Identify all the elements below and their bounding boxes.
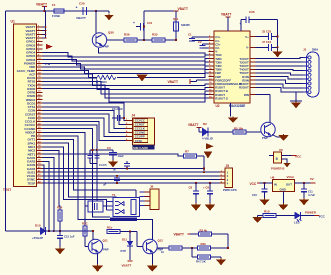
svg-text:C3: C3 — [107, 146, 111, 150]
svg-text:TESP: TESP — [27, 181, 35, 185]
svg-text:OUT: OUT — [286, 183, 292, 187]
svg-text:C10: C10 — [252, 193, 257, 197]
svg-text:CCIO: CCIO — [135, 139, 143, 143]
svg-text:Q31: Q31 — [173, 17, 179, 21]
svg-text:1 W: 1 W — [45, 62, 51, 66]
svg-text:C12 1uF: C12 1uF — [64, 235, 75, 239]
svg-text:VBATT: VBATT — [36, 3, 48, 7]
svg-text:C35: C35 — [249, 10, 255, 14]
svg-text:POWER B: POWER B — [271, 167, 284, 171]
svg-text:4.7uF: 4.7uF — [308, 193, 315, 197]
svg-text:U5: U5 — [279, 148, 283, 152]
svg-text:33 C33: 33 C33 — [262, 29, 271, 33]
svg-text:R3b: R3b — [201, 242, 207, 246]
svg-text:J5: J5 — [226, 164, 230, 168]
svg-text:J1: J1 — [303, 48, 307, 52]
svg-text:SIM CARD: SIM CARD — [133, 146, 149, 150]
svg-text:Q11: Q11 — [103, 239, 109, 243]
svg-text:V+: V+ — [245, 35, 249, 39]
svg-text:MAX3238E: MAX3238E — [229, 104, 245, 108]
svg-text:IN: IN — [274, 183, 277, 187]
svg-text:R1OUT G: R1OUT G — [215, 96, 229, 100]
svg-text:DB9: DB9 — [312, 48, 318, 52]
svg-text:4 VBLID: 4 VBLID — [202, 137, 213, 141]
svg-text:uF: uF — [103, 183, 107, 187]
svg-text:VBATT: VBATT — [122, 264, 132, 268]
svg-text:J4: J4 — [132, 114, 136, 118]
svg-text:C2: C2 — [198, 40, 202, 44]
svg-text:+: + — [133, 21, 135, 25]
svg-text:PNP: PNP — [103, 45, 109, 49]
svg-text:TEST: TEST — [3, 188, 11, 192]
svg-text:VBATT: VBATT — [174, 233, 184, 237]
svg-text:GND: GND — [280, 187, 286, 191]
svg-text:47 C34: 47 C34 — [262, 40, 271, 44]
svg-text:R1C: R1C — [82, 222, 88, 226]
svg-text:C1: C1 — [188, 33, 192, 37]
svg-text:R36: R36 — [124, 33, 130, 37]
svg-text:R10: R10 — [264, 210, 270, 214]
svg-text:U2: U2 — [216, 104, 220, 108]
svg-text:C6 33nF: C6 33nF — [112, 107, 123, 111]
svg-text:VBATT: VBATT — [221, 13, 231, 17]
svg-text:R4 7.5K: R4 7.5K — [196, 260, 206, 264]
svg-text:+: + — [76, 6, 78, 10]
svg-text:F1: F1 — [52, 3, 56, 7]
svg-text:+ C9: + C9 — [203, 186, 209, 190]
svg-text:VBATT: VBATT — [178, 7, 188, 11]
svg-text:10uF: 10uF — [118, 154, 125, 158]
svg-text:5V: 5V — [310, 177, 314, 181]
svg-text:VBATT: VBATT — [76, 16, 86, 20]
svg-text:R2OUT: R2OUT — [239, 86, 249, 90]
svg-text:Q30: Q30 — [108, 31, 114, 35]
svg-text:+: + — [240, 22, 242, 26]
svg-text:RIN: RIN — [244, 93, 249, 97]
svg-text:PNP: PNP — [262, 136, 268, 140]
svg-text:POWER: POWER — [305, 211, 317, 215]
svg-text:V-: V- — [246, 46, 249, 50]
svg-text:VOut: VOut — [287, 175, 294, 179]
svg-text:J6: J6 — [150, 185, 154, 189]
svg-text:VBATT: VBATT — [168, 80, 178, 84]
svg-text:U6: U6 — [271, 176, 275, 180]
svg-text:DYP: DYP — [121, 249, 127, 253]
svg-text:Q12: Q12 — [158, 239, 164, 243]
svg-text:C4 C5: C4 C5 — [99, 163, 107, 167]
svg-text:D2: D2 — [203, 122, 207, 126]
svg-text:uF: uF — [113, 168, 117, 172]
svg-text:T1: T1 — [112, 193, 116, 197]
svg-text:R35: R35 — [152, 33, 158, 37]
svg-text:C30: C30 — [79, 2, 85, 6]
svg-text:VBATT: VBATT — [188, 123, 198, 127]
svg-text:PNP: PNP — [103, 248, 109, 252]
svg-text:FUSE: FUSE — [52, 14, 60, 18]
svg-text:+5VGAP: +5VGAP — [32, 236, 43, 240]
svg-text:C31: C31 — [147, 21, 153, 25]
svg-text:D11: D11 — [122, 238, 127, 242]
svg-text:R14: R14 — [57, 206, 63, 210]
svg-text:R7: R7 — [185, 150, 189, 154]
svg-text:PWR GPS: PWR GPS — [223, 188, 237, 192]
svg-text:VCC: VCC — [250, 182, 257, 186]
svg-text:SI2305: SI2305 — [181, 23, 190, 27]
svg-text:R_TXD0: R_TXD0 — [96, 80, 107, 84]
svg-text:C8: C8 — [189, 186, 193, 190]
svg-text:U1: U1 — [11, 20, 15, 24]
svg-text:R1b: R1b — [107, 226, 113, 230]
